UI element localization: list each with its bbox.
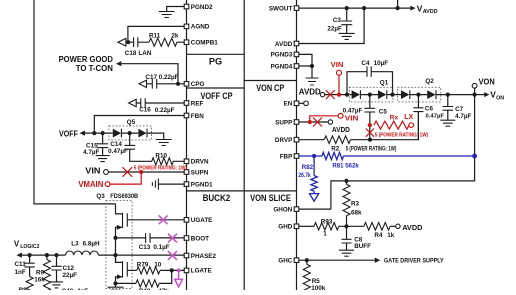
wire R2 to C6 bottom — [351, 112, 419, 142]
svg-text:4.7µF: 4.7µF — [455, 113, 471, 120]
capacitor C3 22uF — [327, 8, 352, 33]
pin AGND — [184, 24, 210, 31]
net arrow at C16 — [129, 99, 137, 106]
wire VON vertical — [331, 95, 475, 210]
svg-text:ON: ON — [496, 95, 504, 101]
resistor R11 2k — [149, 32, 184, 46]
capacitor C6 0.47uF — [413, 95, 444, 140]
wire FBN to VOFF node — [94, 116, 184, 134]
svg-text:562k: 562k — [345, 162, 359, 169]
wire VLOGIC2 arrow — [17, 253, 66, 258]
svg-text:UGATE: UGATE — [191, 217, 213, 224]
svg-text:LAN: LAN — [138, 50, 151, 57]
X mark PHASE2 pink — [168, 251, 177, 260]
wire SUPP red to VIN — [310, 113, 359, 122]
label VOFF — [59, 129, 85, 138]
node LGATE junction — [170, 268, 174, 272]
svg-text:TO T-CON: TO T-CON — [76, 63, 113, 73]
terminal VIN red top — [331, 60, 344, 75]
wire DRVP to R2 — [299, 139, 324, 141]
svg-text:1nF: 1nF — [15, 269, 26, 276]
svg-text:FBN: FBN — [191, 113, 204, 120]
transistor Q3 lower FET — [116, 255, 128, 283]
svg-text:GHC: GHC — [278, 258, 292, 265]
node Q1 Q2 junction — [390, 93, 394, 97]
diode Q1b — [378, 90, 401, 99]
svg-text:BUFF: BUFF — [354, 243, 371, 250]
transistor Q3 FDS6930B dashed box — [96, 193, 138, 289]
resistor Rx red — [374, 112, 414, 129]
ground at C8 — [339, 250, 354, 256]
svg-text:AVDD: AVDD — [275, 41, 293, 48]
terminal VON — [472, 76, 495, 94]
section label BUCK2 — [203, 193, 231, 203]
resistor R5 100k — [303, 260, 326, 294]
svg-text:LGATE: LGATE — [191, 268, 212, 275]
svg-text:SUPN: SUPN — [191, 169, 209, 176]
svg-text:100k: 100k — [311, 285, 326, 290]
pin FBN — [184, 113, 204, 120]
svg-text:GHD: GHD — [278, 224, 292, 231]
pin SUPP — [275, 119, 299, 126]
net arrow at COMPB1 — [118, 38, 126, 46]
svg-text:PHASE2: PHASE2 — [191, 253, 217, 260]
svg-text:FBP: FBP — [280, 153, 293, 160]
resistor R81 562k blue — [322, 152, 359, 169]
svg-text:SWOUT: SWOUT — [269, 5, 293, 12]
wire VIN red to charge pump — [337, 75, 341, 96]
wire AGND to node A — [128, 26, 184, 42]
svg-text:R3: R3 — [351, 201, 360, 208]
section label VOFF CP — [201, 91, 233, 101]
pin GHC — [278, 258, 299, 265]
svg-text:BUCK2: BUCK2 — [203, 193, 231, 203]
IC U1 outline right edge — [296, 0, 298, 290]
pin GHD — [278, 224, 299, 231]
pin PGND1 — [184, 181, 213, 188]
svg-text:GHON: GHON — [273, 206, 292, 213]
svg-text:10µF: 10µF — [374, 60, 389, 67]
resistor R8 — [19, 277, 33, 294]
svg-text:VOFF CP: VOFF CP — [201, 91, 233, 101]
label C40 4nF clipped — [62, 288, 89, 295]
svg-text:Q1: Q1 — [380, 80, 389, 87]
resistor R93 1 — [314, 218, 364, 237]
transistor Q5 dashed box — [109, 119, 152, 140]
svg-text:C13: C13 — [139, 244, 151, 251]
inductor L3 6.8uH — [66, 241, 116, 255]
svg-text:1k: 1k — [387, 232, 395, 239]
transistor Q1 dashed box — [349, 80, 393, 102]
svg-text:CPG: CPG — [191, 81, 205, 88]
capacitor C16 0.22uF — [136, 98, 184, 114]
terminal AVDD charge pump — [299, 87, 325, 97]
resistor R4 1k — [364, 223, 396, 240]
svg-text:PGND3: PGND3 — [271, 52, 293, 59]
ground at C12 — [50, 282, 63, 288]
X cut C5 to R2 — [366, 129, 428, 139]
svg-text:C5: C5 — [379, 108, 388, 115]
wire GHON — [299, 208, 331, 210]
pin REF — [184, 100, 203, 107]
wire AVDD to Q1 — [325, 93, 352, 97]
capacitor C14 0.47uF — [108, 133, 152, 161]
svg-text:R10: R10 — [155, 153, 167, 160]
ground at Q3 source — [108, 283, 124, 290]
wire VIN to SUPN — [108, 171, 184, 173]
svg-text:Rx: Rx — [390, 114, 399, 121]
svg-text:PGND2: PGND2 — [191, 4, 213, 11]
svg-text:R82: R82 — [302, 164, 314, 171]
wire EN no connect — [299, 101, 309, 106]
pin SWOUT — [269, 5, 299, 12]
svg-text:VIN: VIN — [345, 113, 359, 122]
capacitor C4 10uF — [347, 60, 393, 95]
svg-text:VON CP: VON CP — [256, 83, 284, 93]
wire PGND2 to ground — [167, 7, 185, 12]
net arrow at C17 — [139, 80, 147, 87]
node BOOT junction — [113, 236, 117, 240]
capacitor C17 0.22uF — [145, 74, 184, 89]
section label VON SLICE — [250, 193, 291, 203]
diode Q2b — [427, 90, 474, 99]
IC U1 divider VOFF CP top — [187, 87, 245, 89]
pin PHASE2 — [184, 253, 216, 260]
capacitor C11 1nF — [15, 255, 35, 276]
IC U1 divider PG top — [187, 53, 245, 55]
label POWER GOOD TO T-CON — [59, 54, 113, 73]
svg-text:L3: L3 — [71, 241, 79, 248]
svg-text:C18: C18 — [125, 50, 137, 57]
svg-text:DRVN: DRVN — [191, 159, 209, 166]
resistor R3 68k — [343, 181, 362, 226]
svg-text:FDS6930B: FDS6930B — [110, 193, 138, 200]
svg-text:EN: EN — [284, 101, 293, 108]
pin CPG — [184, 81, 204, 88]
svg-text:R79: R79 — [137, 261, 149, 268]
svg-text:PGND4: PGND4 — [271, 63, 293, 70]
svg-text:5 (POWER RATING: 1W): 5 (POWER RATING: 1W) — [134, 166, 187, 172]
wire VMAIN red to SUPN node — [110, 172, 141, 184]
svg-text:C4: C4 — [361, 60, 370, 67]
svg-text:VIN: VIN — [85, 166, 100, 175]
ground at Q5 — [156, 140, 172, 146]
svg-text:VOFF: VOFF — [59, 129, 78, 138]
node R3 top junction — [344, 179, 348, 183]
svg-text:SUPP: SUPP — [275, 119, 292, 126]
wire SWOUT rail — [299, 6, 411, 10]
pin PGND4 — [271, 63, 299, 70]
svg-text:22µF: 22µF — [63, 272, 78, 279]
IC U1 outline left edge — [186, 0, 188, 290]
svg-text:0.1µF: 0.1µF — [153, 244, 169, 251]
svg-text:C17: C17 — [145, 74, 157, 81]
wire VMAIN rail — [34, 0, 116, 204]
ground at PGND1 rotated — [152, 179, 158, 190]
svg-text:5 (POWER RATING: 1W): 5 (POWER RATING: 1W) — [375, 132, 429, 138]
svg-text:16k: 16k — [34, 277, 45, 284]
wire VOFF node — [85, 131, 113, 135]
node Q2 mid junction — [416, 93, 420, 97]
label VLOGIC2 — [14, 239, 40, 250]
resistor R79 10 — [127, 261, 184, 274]
capacitor C7 4.7uF — [443, 95, 472, 121]
svg-text:C3: C3 — [333, 17, 342, 24]
svg-text:BOOT: BOOT — [191, 235, 209, 242]
svg-text:PG: PG — [209, 57, 222, 67]
svg-text:VON SLICE: VON SLICE — [250, 193, 291, 203]
node Q5 mid junction — [128, 131, 132, 135]
transistor Q2 dashed box — [398, 78, 441, 102]
pin FBP — [280, 153, 299, 160]
svg-text:0.22µF: 0.22µF — [155, 107, 175, 114]
resistor R43 47k — [116, 270, 172, 294]
svg-text:VON: VON — [479, 76, 495, 86]
pin BOOT — [184, 235, 209, 242]
ground at C15 — [96, 156, 110, 162]
svg-text:0.22µF: 0.22µF — [159, 74, 179, 81]
wire FBP blue — [299, 154, 322, 158]
svg-text:6.8µH: 6.8µH — [83, 241, 100, 248]
capacitor C18 — [125, 37, 152, 57]
svg-text:C6: C6 — [425, 106, 434, 113]
node PHASE2 junction — [113, 253, 117, 257]
X mark BOOT pink — [168, 234, 177, 243]
wire PGND1 to ground — [158, 183, 184, 185]
pin SUPN — [184, 169, 209, 176]
svg-text:R11: R11 — [149, 32, 161, 39]
svg-text:AVDD: AVDD — [402, 223, 423, 232]
resistor R2 5 (POWER RATING: 1W) — [324, 136, 396, 153]
node CPG junction — [176, 82, 180, 86]
pin PGND3 — [271, 52, 299, 59]
ground at C7 — [440, 120, 455, 126]
svg-text:Q2: Q2 — [425, 78, 434, 85]
ground at PGND2 — [159, 12, 175, 18]
wire phase chain — [115, 238, 117, 263]
svg-text:Q5: Q5 — [127, 119, 136, 126]
IC U1 divider VON CP top — [244, 80, 296, 82]
svg-text:4.7µF: 4.7µF — [83, 149, 99, 156]
svg-text:R9: R9 — [36, 270, 45, 277]
svg-text:R81: R81 — [332, 162, 344, 169]
section label PG — [209, 57, 222, 67]
svg-text:GATE DRIVER SUPPLY: GATE DRIVER SUPPLY — [384, 258, 444, 265]
svg-text:AVDD: AVDD — [299, 87, 321, 96]
wire GHC — [299, 258, 375, 262]
terminal AVDD at R4 — [396, 223, 423, 232]
svg-text:C16: C16 — [139, 106, 151, 113]
wire SWOUT rail to AVDD pin — [299, 8, 364, 43]
pin DRVP — [275, 137, 299, 144]
node VON junctions — [446, 93, 477, 97]
diode Q1a — [352, 90, 378, 99]
diode Q5a — [113, 129, 139, 138]
node A junction — [126, 40, 130, 44]
svg-text:AVDD: AVDD — [332, 127, 350, 134]
resistor R10 — [152, 153, 184, 165]
svg-text:AGND: AGND — [191, 24, 210, 31]
pin EN — [284, 101, 299, 108]
resistor R9 16k — [34, 255, 50, 291]
svg-text:R5: R5 — [312, 278, 321, 285]
svg-text:10: 10 — [154, 261, 162, 268]
svg-text:26.7k: 26.7k — [298, 173, 311, 179]
IC U1 internal divider — [243, 0, 245, 290]
svg-text:0.47µF: 0.47µF — [108, 148, 128, 155]
node Q3 source junction — [113, 281, 117, 285]
terminal VIN (SUPN) — [85, 166, 108, 175]
node LGATE pink dot — [177, 268, 181, 279]
svg-text:R93: R93 — [321, 218, 333, 225]
ground arrow blue at R82 — [310, 194, 319, 202]
pin PGND2 — [184, 4, 213, 11]
diode Q2a — [401, 90, 427, 99]
svg-text:AVDD: AVDD — [423, 9, 438, 15]
svg-text:R4: R4 — [374, 232, 383, 239]
IC U1 divider BUCK2 / VON SLICE top — [187, 190, 297, 192]
section label VON CP — [256, 83, 284, 93]
pin GHON — [273, 206, 298, 213]
pin DRVN — [184, 159, 209, 166]
svg-text:VIN: VIN — [331, 60, 344, 69]
svg-text:V: V — [14, 239, 20, 248]
svg-text:VMAIN: VMAIN — [78, 180, 103, 189]
node C8 junction — [344, 224, 348, 228]
svg-text:0.47µF: 0.47µF — [426, 113, 445, 119]
pin UGATE — [184, 217, 212, 224]
svg-text:COMPB1: COMPB1 — [191, 40, 218, 47]
svg-text:C11: C11 — [15, 261, 27, 268]
capacitor C13 0.1uF — [116, 233, 185, 251]
ground at C3 — [339, 33, 355, 39]
svg-text:2k: 2k — [171, 32, 179, 39]
ground at PGND4 — [306, 78, 319, 85]
svg-text:PGND1: PGND1 — [191, 181, 213, 188]
label GATE DRIVER SUPPLY arrow — [375, 258, 445, 265]
X cut VIN to SUPN — [122, 166, 187, 177]
wire PGND3 PGND4 to ground — [299, 54, 314, 78]
pin COMPB1 — [184, 40, 218, 47]
X mark UGATE pink — [159, 215, 168, 224]
capacitor C15 4.7uF — [83, 133, 108, 156]
capacitor C12 22uF — [51, 255, 77, 282]
ground arrow pink at LGATE — [175, 279, 183, 287]
wire SUPP to AVDD terminal — [299, 120, 350, 134]
label VON arrow — [475, 90, 505, 102]
pin LGATE — [184, 268, 211, 275]
resistor R82 26.7k blue — [298, 156, 317, 194]
capacitor C5 0.47uF — [343, 95, 388, 140]
svg-text:R2: R2 — [331, 146, 340, 153]
wire stub up from SWOUT rail — [397, 0, 399, 8]
wire GHD to R93 — [299, 225, 314, 227]
label VAVDD arrow — [410, 3, 437, 15]
svg-text:68k: 68k — [351, 209, 362, 216]
wire UGATE — [127, 219, 184, 221]
svg-text:Q3: Q3 — [96, 193, 105, 200]
wire R81 to VON blue — [343, 154, 477, 159]
capacitor C8 BUFF — [342, 226, 372, 250]
X cut SUPP wire — [308, 118, 322, 127]
svg-text:LOGIC2: LOGIC2 — [20, 244, 39, 250]
terminal VMAIN red — [78, 180, 110, 189]
diode Q5b — [138, 129, 163, 140]
svg-text:5 (POWER RATING: 1W): 5 (POWER RATING: 1W) — [346, 147, 397, 153]
wire POWER GOOD arrow to CPG — [116, 61, 178, 84]
wire PHASE2 — [116, 254, 185, 256]
node C5 red junction — [368, 123, 372, 127]
node Q1 mid junction — [368, 93, 372, 97]
transistor Q3 upper FET — [116, 204, 128, 238]
svg-text:LX: LX — [404, 112, 414, 121]
svg-text:1: 1 — [323, 230, 327, 237]
svg-text:DRVP: DRVP — [275, 137, 292, 144]
svg-text:22µF: 22µF — [327, 25, 342, 32]
svg-text:REF: REF — [191, 100, 204, 107]
X cut AVDD to charge pump — [326, 90, 335, 99]
pin AVDD — [275, 41, 299, 48]
